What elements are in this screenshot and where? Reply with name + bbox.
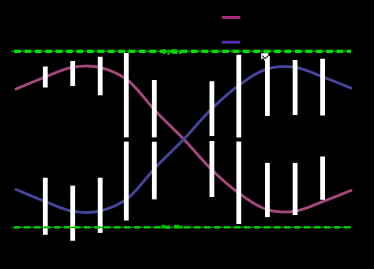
upper limit line bright green dashed <box>11 50 351 53</box>
bar x239 upper <box>236 55 241 138</box>
curve pink series <box>16 66 351 212</box>
lower limit overlap blobs <box>162 225 183 229</box>
legend pink line sample <box>222 16 241 19</box>
bar x154 lower <box>152 142 157 200</box>
upper limit line thin dark green <box>11 50 351 52</box>
bar x212 upper <box>209 81 214 136</box>
lower limit line bright green dashed <box>11 226 351 228</box>
bar x126 lower <box>124 142 129 221</box>
bar x154 upper <box>152 80 157 137</box>
bar x100 upper <box>98 57 103 96</box>
mouse cursor <box>261 53 268 61</box>
bar x295 lower <box>293 163 298 215</box>
bar x72 upper <box>70 61 75 86</box>
bar x100 lower <box>98 178 103 233</box>
upper limit overlap blobs <box>163 49 182 55</box>
legend blue line sample <box>222 41 241 44</box>
bar x323 lower <box>320 157 325 200</box>
bar x267 lower <box>265 163 270 217</box>
bar x46 upper <box>43 67 48 88</box>
bar x46 lower <box>43 178 48 235</box>
bar x212 lower <box>209 141 214 197</box>
bar x126 upper <box>124 53 129 137</box>
bar x72 lower <box>70 186 75 241</box>
bar x267 upper <box>265 56 270 116</box>
bar x295 upper <box>293 60 298 115</box>
lower limit line thin dark green <box>11 227 351 229</box>
mouse cursor outline marks <box>262 56 268 59</box>
curve blue series <box>16 67 351 213</box>
bar x239 lower <box>236 142 241 225</box>
error bars (white) <box>45 53 322 241</box>
bar x323 upper <box>320 59 325 116</box>
